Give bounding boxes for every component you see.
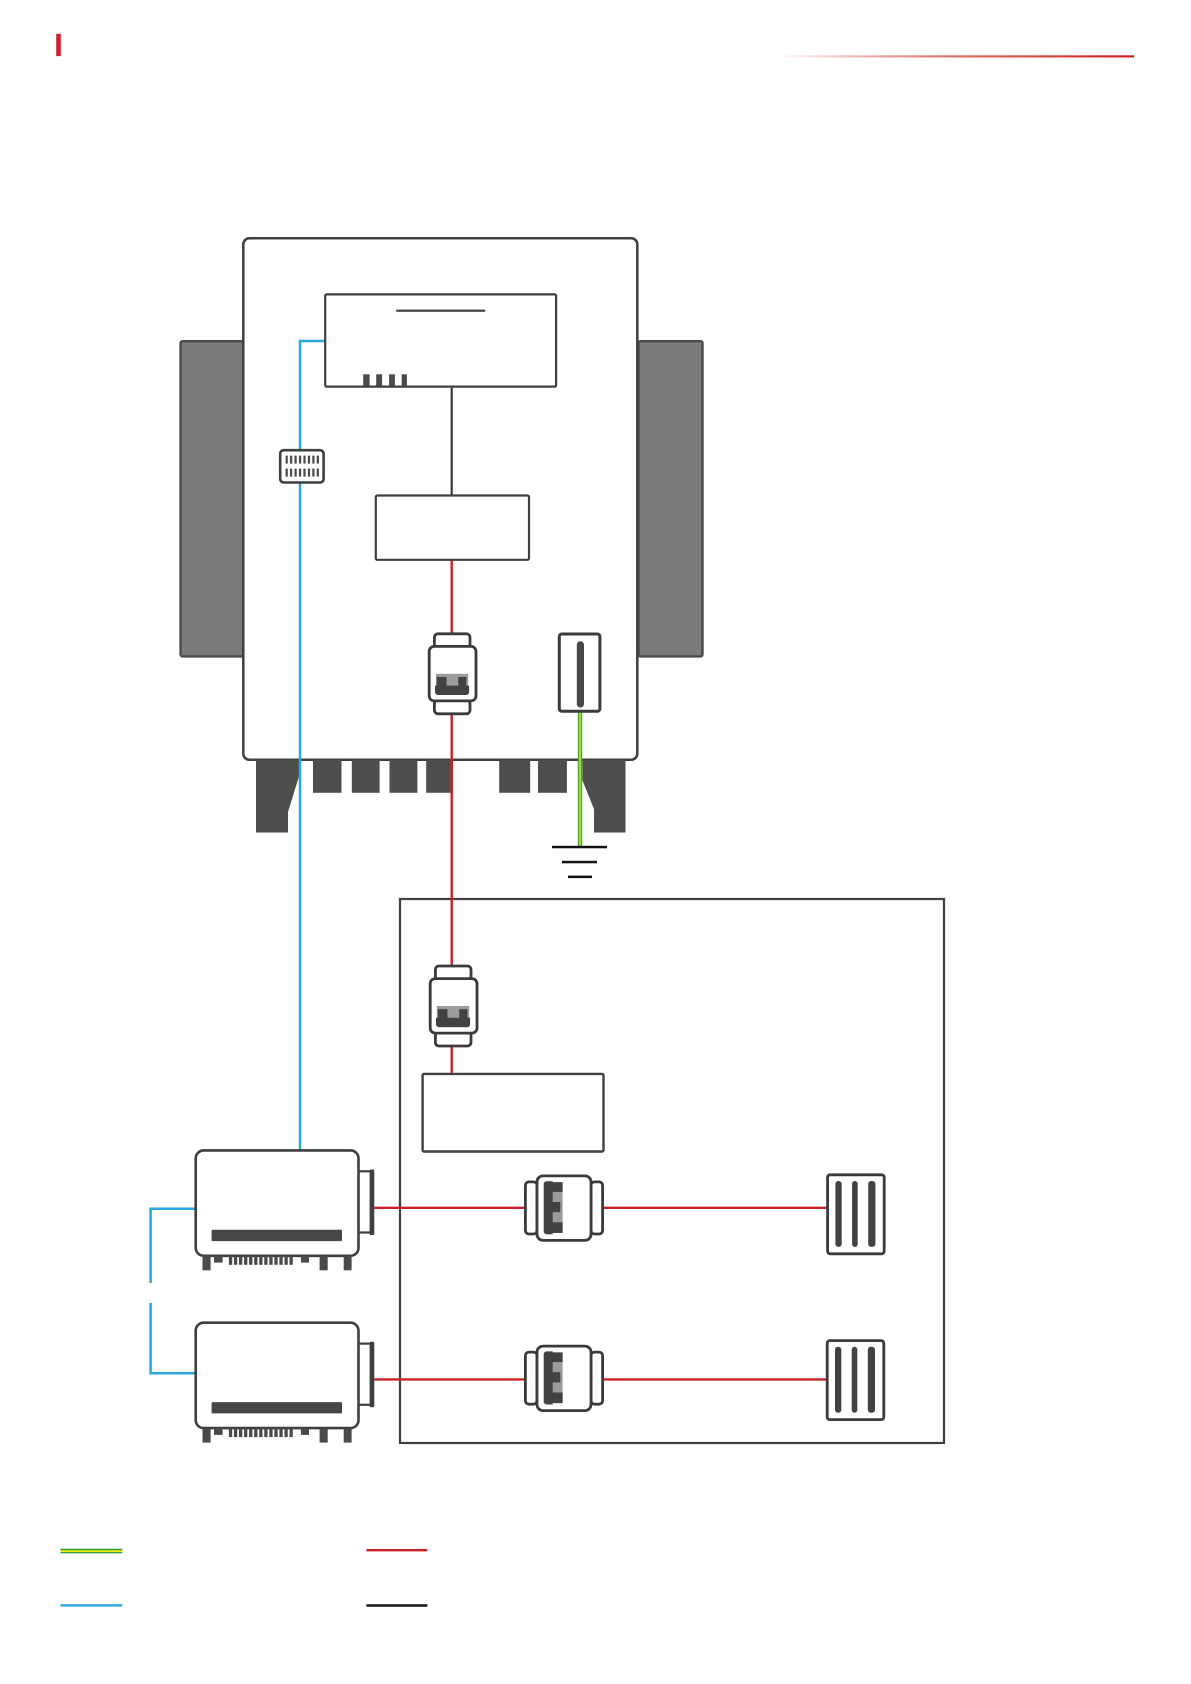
wire: DC (red) battery 1 to fuse row 1 (374, 1207, 527, 1209)
wire: DC (red) fuse row 2 to load 2 (601, 1378, 828, 1380)
fuse holder row 1 (525, 1176, 602, 1241)
battery icon (inner top rect) (325, 294, 556, 386)
terminal lug 2 (352, 760, 380, 793)
terminal foot left (256, 760, 300, 833)
wire: battery comm (blue) inverter to battery 1 (300, 341, 326, 1150)
wire: DC (red) battery 2 to fuse row 2 (374, 1378, 527, 1380)
heatsink left panel (181, 341, 245, 656)
section marker bar (56, 34, 61, 56)
terminal lug 5 (499, 760, 530, 793)
DC breaker 2 (430, 966, 477, 1046)
legend signal wire (366, 1604, 427, 1607)
terminal lug 1 (313, 760, 342, 793)
load row 2 (827, 1341, 884, 1420)
header rule (776, 55, 1134, 57)
terminal lug 4 (426, 760, 453, 793)
wire: PE (green) (578, 710, 582, 847)
legend PE wire (61, 1549, 123, 1554)
inverter block (middle rect) (376, 496, 529, 560)
wire: DC (red) breaker 2 to meter (451, 1042, 453, 1074)
heatsink right panel (639, 341, 703, 656)
battery module 1 (196, 1150, 375, 1270)
DC breaker 1 (429, 634, 476, 714)
fuse holder row 2 (525, 1346, 602, 1411)
PE terminal (559, 634, 600, 711)
legend DC wire (366, 1549, 427, 1551)
battery comm port (hatched connector) (280, 450, 323, 482)
ground symbol (552, 846, 607, 849)
wire: battery comm (blue) battery 1 to battery 2 (151, 1209, 196, 1283)
meter box (423, 1074, 604, 1152)
battery module 2 (196, 1323, 375, 1443)
wire: battery comm (blue) continuation (151, 1303, 196, 1373)
legend battery comm wire (61, 1604, 123, 1606)
load row 1 (828, 1175, 885, 1254)
inverter enclosure (243, 238, 637, 759)
distribution box (400, 899, 944, 1443)
terminal lug 3 (390, 760, 418, 793)
terminal lug 6 (538, 760, 567, 793)
terminal foot right (582, 760, 625, 833)
wire: DC (red) fuse row 1 to load 1 (601, 1207, 828, 1209)
wire: signal (black) battery icon to inverter block (451, 387, 453, 496)
wire: DC (red) breaker 1 to breaker 2 (451, 712, 453, 968)
wire: DC (red) inverter block to breaker 1 (451, 560, 453, 636)
